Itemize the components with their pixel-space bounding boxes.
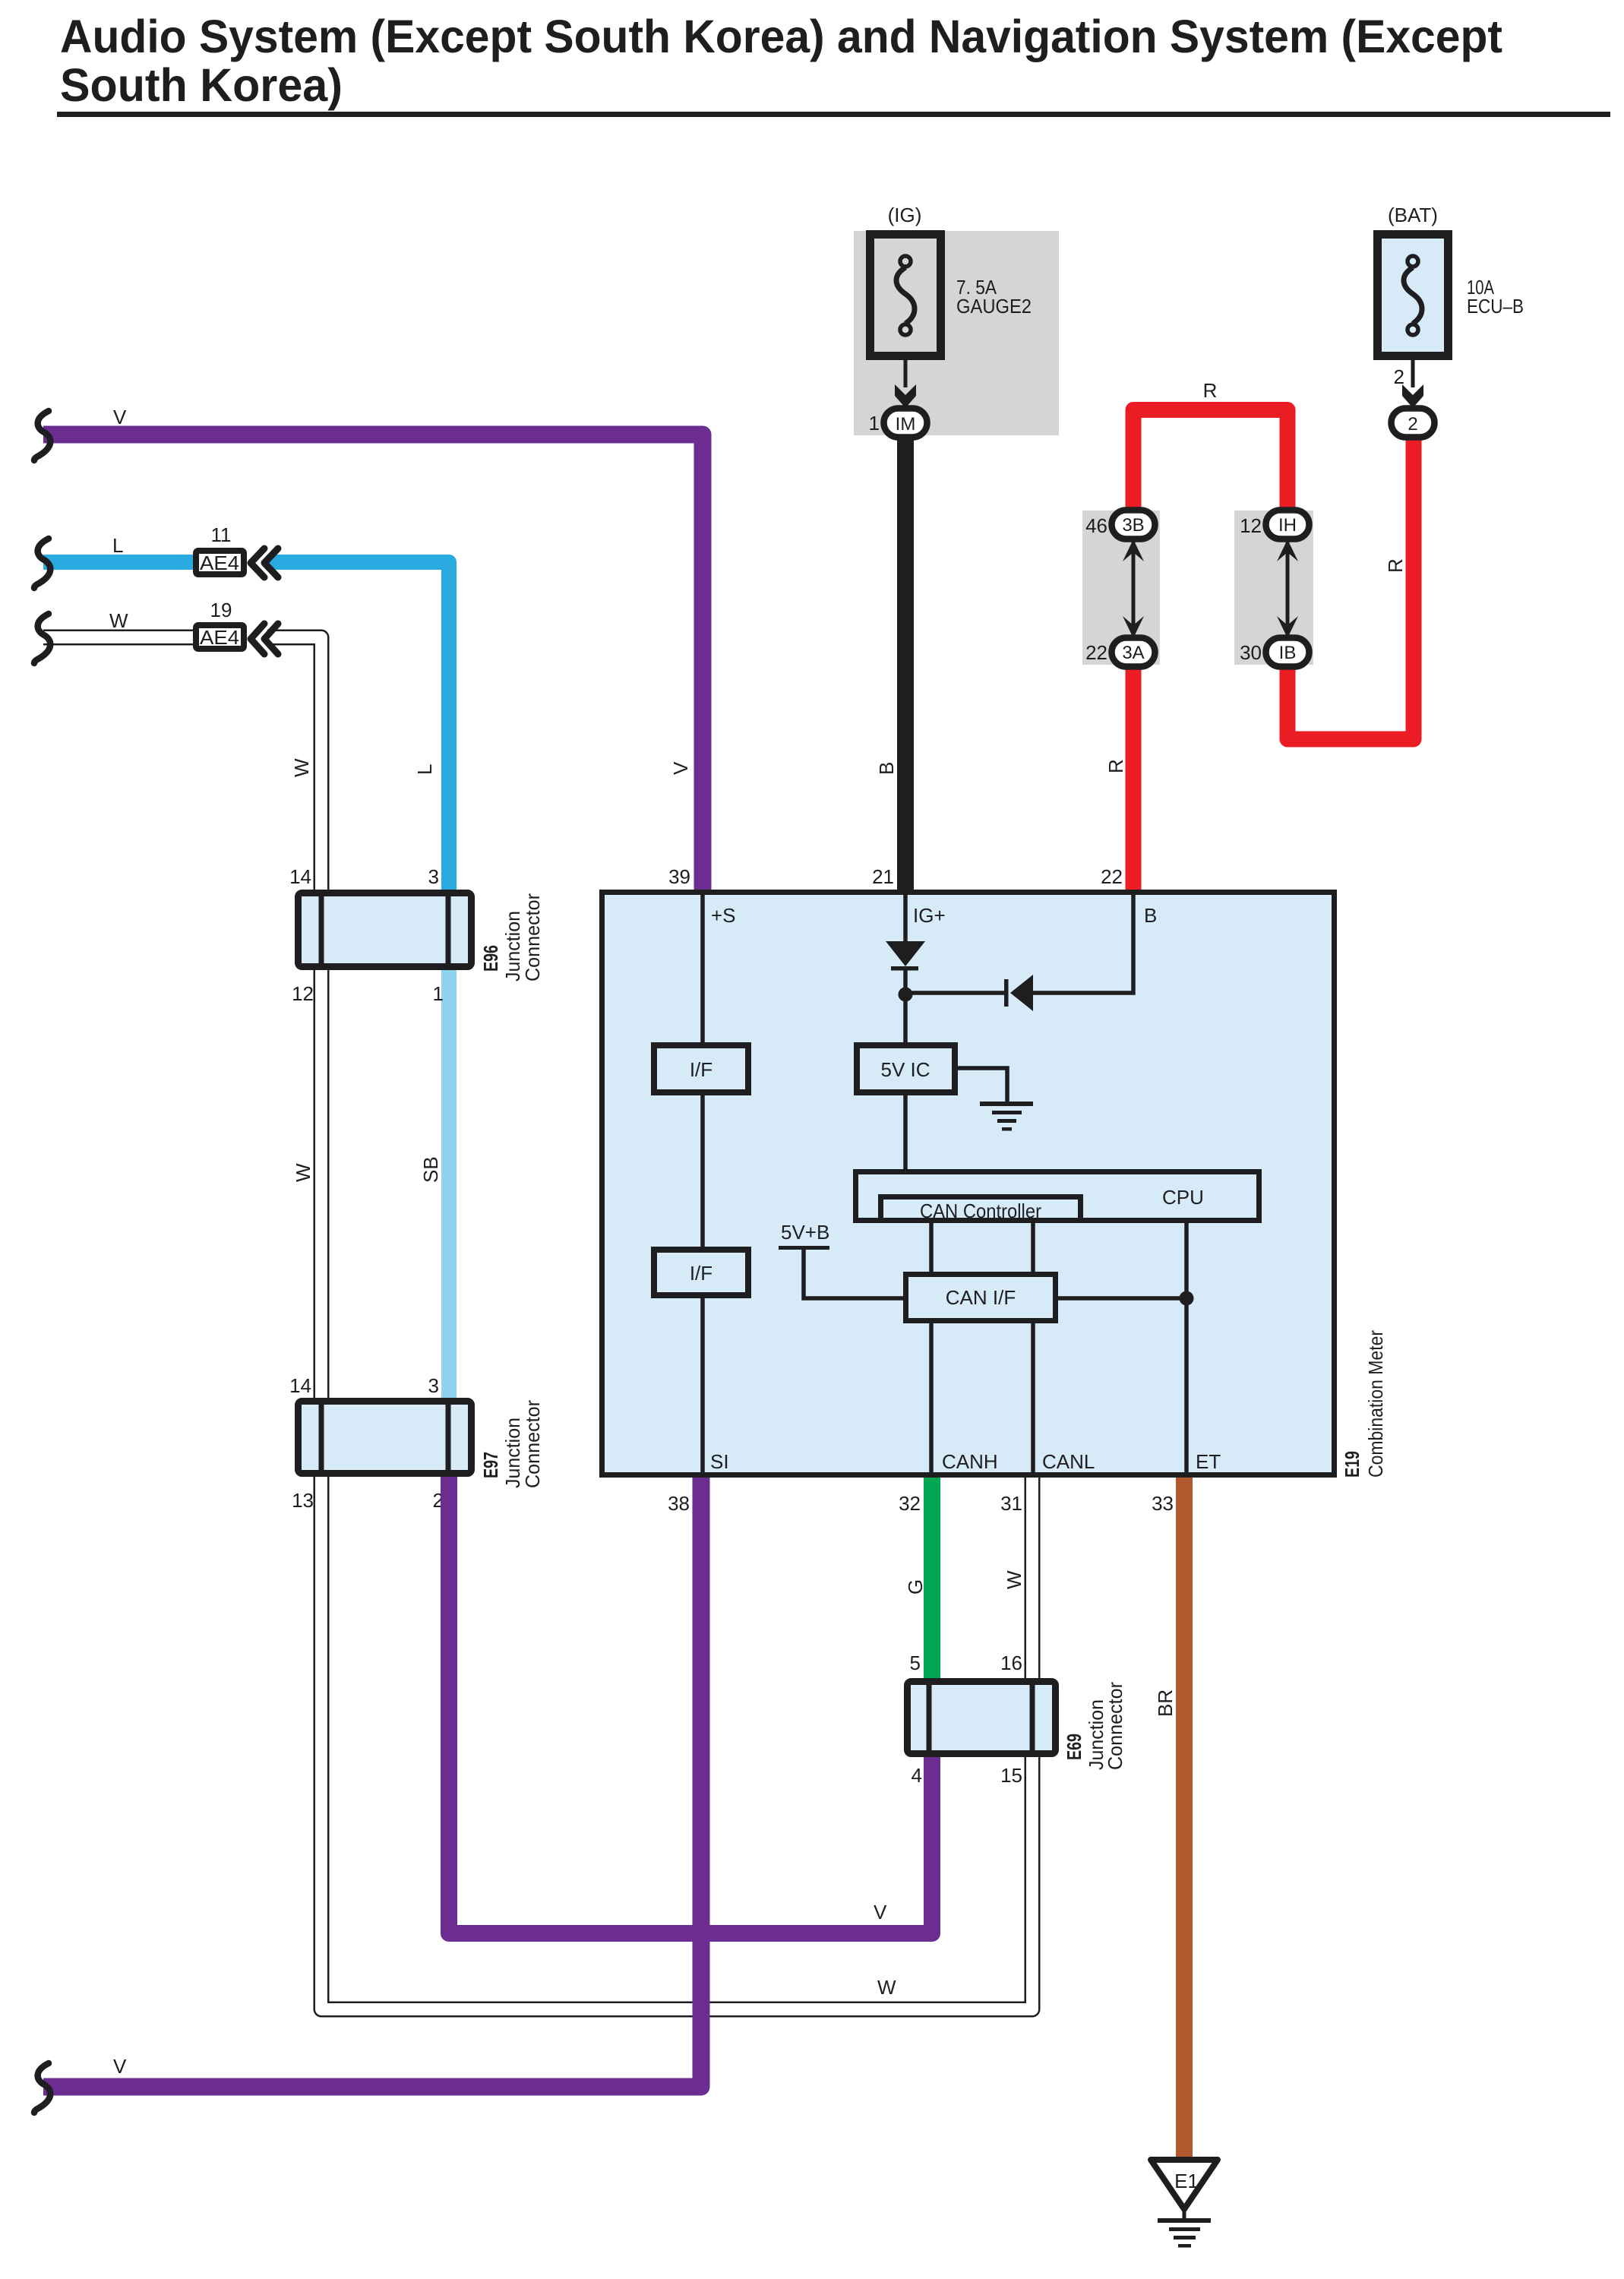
- gray block IH/IB: [1234, 510, 1313, 665]
- connector oval IH: [1266, 510, 1310, 539]
- internal wires CAN I/F to pins CANH CANL: [931, 1323, 1033, 1472]
- gray block (IG) fuse background: [854, 231, 1059, 435]
- svg-text:W: W: [109, 609, 128, 632]
- svg-text:R: R: [1384, 558, 1407, 573]
- internal wire CAN I/F to ET with CPU branch: [1058, 1223, 1186, 1472]
- svg-text:5: 5: [910, 1652, 921, 1674]
- svg-text:2: 2: [1394, 365, 1404, 388]
- svg-text:E97: E97: [479, 1452, 502, 1478]
- title rule: [57, 112, 1610, 117]
- wire BR brown: E19 pin 33 to ground E1: [1176, 1475, 1193, 2160]
- svg-text:16: 16: [1000, 1652, 1022, 1674]
- double arrow 3B-3A: [1132, 541, 1136, 637]
- wire fuse ECU-B to oval 2: [1411, 356, 1415, 387]
- svg-text:3: 3: [428, 1374, 439, 1397]
- svg-text:South Korea): South Korea): [60, 59, 343, 111]
- ground (internal): [980, 1102, 1033, 1106]
- svg-text:G: G: [904, 1579, 927, 1595]
- svg-text:30: 30: [1240, 641, 1262, 664]
- svg-text:13: 13: [292, 1489, 314, 1512]
- fuse F1 element: [896, 267, 915, 324]
- svg-text:33: 33: [1152, 1492, 1174, 1515]
- svg-text:ET: ET: [1196, 1450, 1221, 1473]
- wire R red: 3A down to E19 pin 22: [1126, 652, 1142, 890]
- internal wires CAN Controller to CAN I/F: [931, 1223, 1033, 1272]
- svg-text:14: 14: [289, 1374, 311, 1397]
- svg-text:CAN Controller: CAN Controller: [920, 1200, 1041, 1222]
- svg-text:19: 19: [210, 599, 232, 621]
- svg-text:(BAT): (BAT): [1388, 204, 1438, 226]
- junction connector E96: [299, 893, 472, 967]
- block 5V IC: [857, 1045, 955, 1092]
- connector AE4 (pin 11): [196, 551, 244, 574]
- block CAN Controller: [881, 1197, 1081, 1221]
- svg-text:IH: IH: [1278, 515, 1297, 536]
- ground E1: [1151, 2160, 1218, 2209]
- fuse F2 element: [1404, 267, 1422, 324]
- combination meter E19 box: [602, 893, 1335, 1475]
- svg-text:W: W: [292, 1163, 314, 1182]
- svg-text:R: R: [1104, 759, 1127, 773]
- svg-text:Connector: Connector: [1104, 1682, 1126, 1770]
- svg-text:CPU: CPU: [1162, 1186, 1204, 1209]
- svg-text:5V IC: 5V IC: [880, 1058, 930, 1081]
- svg-text:14: 14: [289, 865, 311, 888]
- arrow into IM: [895, 384, 916, 408]
- svg-text:3B: 3B: [1122, 515, 1144, 536]
- junction connector E97: [299, 1402, 472, 1474]
- svg-text:V: V: [113, 406, 127, 428]
- chevron pair on L wire: [251, 548, 278, 577]
- svg-text:GAUGE2: GAUGE2: [956, 295, 1032, 318]
- svg-text:Connector: Connector: [521, 893, 544, 981]
- svg-text:Connector: Connector: [521, 1400, 544, 1488]
- svg-text:15: 15: [1000, 1764, 1022, 1787]
- svg-text:32: 32: [899, 1492, 921, 1515]
- break squiggle V bottom: [34, 2063, 50, 2113]
- svg-text:V: V: [669, 761, 692, 775]
- svg-text:21: 21: [872, 865, 894, 888]
- internal wire +S to SI: [700, 894, 705, 1472]
- svg-text:39: 39: [668, 865, 690, 888]
- svg-text:V: V: [113, 2055, 127, 2078]
- svg-text:W: W: [877, 1976, 896, 1999]
- svg-text:Audio System (Except South Kor: Audio System (Except South Korea) and Na…: [60, 11, 1502, 62]
- svg-text:ECU–B: ECU–B: [1467, 295, 1524, 318]
- svg-text:W: W: [290, 758, 313, 777]
- svg-text:B: B: [1144, 904, 1157, 927]
- svg-text:R: R: [1203, 379, 1218, 402]
- wire B black: IM to E19 pin 21: [897, 422, 914, 890]
- svg-text:SI: SI: [710, 1450, 729, 1473]
- junction connector E69: [908, 1682, 1056, 1754]
- svg-text:3A: 3A: [1122, 643, 1144, 663]
- break squiggle L: [34, 539, 50, 588]
- diode D1 (from IG+): [886, 941, 925, 966]
- svg-text:I/F: I/F: [690, 1058, 712, 1081]
- svg-text:SB: SB: [419, 1156, 442, 1183]
- connector oval IB: [1266, 638, 1310, 667]
- break squiggle V top: [34, 411, 50, 460]
- block CAN I/F: [906, 1275, 1056, 1321]
- svg-text:E69: E69: [1063, 1734, 1085, 1760]
- svg-text:38: 38: [668, 1492, 690, 1515]
- svg-text:+S: +S: [711, 904, 736, 927]
- node junction dot: [899, 988, 913, 1002]
- svg-text:31: 31: [1000, 1492, 1022, 1515]
- svg-text:W: W: [1003, 1570, 1025, 1589]
- svg-text:IB: IB: [1279, 643, 1297, 663]
- connector oval 2: [1392, 409, 1435, 438]
- svg-text:22: 22: [1085, 641, 1107, 664]
- 5V+B bar: [779, 1246, 829, 1250]
- gray block 3B/3A: [1082, 510, 1160, 665]
- wire W white: AE4 down left side, across bottom, up to pin 31: [43, 630, 194, 646]
- internal wire IG+: [903, 894, 908, 942]
- svg-text:E96: E96: [479, 945, 502, 972]
- svg-text:Combination Meter: Combination Meter: [1364, 1330, 1387, 1478]
- svg-text:L: L: [112, 534, 123, 557]
- svg-text:3: 3: [428, 865, 439, 888]
- internal wire dot to diode D2 to pin B: [905, 894, 1133, 993]
- double arrow IH-IB: [1286, 541, 1290, 637]
- wire R red: oval 2 down, across, up to IB: [1288, 422, 1414, 739]
- wire fuse GAUGE2 to pin IM: [904, 356, 908, 387]
- wire L blue: [43, 555, 194, 570]
- wire V violet top: [43, 435, 703, 890]
- svg-text:E19: E19: [1341, 1451, 1363, 1478]
- internal wire 5V IC to CPU: [903, 1092, 908, 1171]
- block I/F lower: [654, 1250, 748, 1295]
- wire G green: E19 pin 32 to E69 pin 5: [924, 1475, 940, 1678]
- node junction dot 2: [1180, 1291, 1194, 1306]
- fuse F1 GAUGE2 body: [870, 235, 941, 356]
- svg-text:CANL: CANL: [1042, 1450, 1095, 1473]
- connector AE4 (pin 19): [196, 625, 244, 649]
- connector oval 3A: [1112, 638, 1155, 667]
- svg-text:V: V: [874, 1901, 887, 1923]
- svg-text:B: B: [875, 762, 898, 775]
- chevron pair on W wire: [251, 624, 278, 654]
- wire SB sky blue E96 to E97: [441, 970, 457, 1398]
- block CPU: [856, 1172, 1259, 1221]
- diode D2 (from B): [1004, 979, 1009, 1007]
- arrow into oval 2: [1402, 384, 1423, 408]
- wire V violet: E97 pin 2 to E69 pin 4: [449, 1477, 932, 1933]
- svg-text:L: L: [413, 764, 436, 775]
- internal wire 5V+B to CAN I/F: [804, 1247, 903, 1298]
- block I/F upper: [654, 1045, 748, 1092]
- svg-text:22: 22: [1101, 865, 1123, 888]
- svg-text:12: 12: [292, 982, 314, 1005]
- svg-text:(IG): (IG): [888, 204, 922, 226]
- svg-text:AE4: AE4: [200, 626, 239, 649]
- svg-text:12: 12: [1240, 514, 1262, 537]
- internal wire 5V IC to ground: [955, 1068, 1007, 1102]
- svg-text:2: 2: [1408, 414, 1417, 435]
- svg-text:CANH: CANH: [942, 1450, 998, 1473]
- svg-text:5V+B: 5V+B: [781, 1221, 829, 1244]
- svg-text:IM: IM: [896, 414, 916, 435]
- svg-text:I/F: I/F: [690, 1262, 712, 1285]
- svg-text:46: 46: [1085, 514, 1107, 537]
- svg-text:11: 11: [211, 523, 232, 546]
- wire V violet: E19 pin 38 down to bottom edge: [43, 1475, 701, 2087]
- svg-text:1: 1: [433, 982, 444, 1005]
- svg-text:1: 1: [869, 412, 880, 435]
- svg-text:E1: E1: [1174, 2170, 1199, 2192]
- connector oval 3B: [1112, 510, 1155, 539]
- svg-text:CAN I/F: CAN I/F: [946, 1286, 1016, 1309]
- svg-text:BR: BR: [1154, 1689, 1177, 1717]
- svg-text:AE4: AE4: [200, 552, 239, 574]
- wire R red: 3B up, across, down to IH: [1133, 410, 1288, 526]
- break squiggle W: [34, 614, 50, 663]
- connector oval IM: [884, 409, 927, 438]
- internal wire D1 to 5V IC: [903, 970, 908, 1042]
- svg-text:4: 4: [912, 1764, 922, 1787]
- svg-text:IG+: IG+: [913, 904, 946, 927]
